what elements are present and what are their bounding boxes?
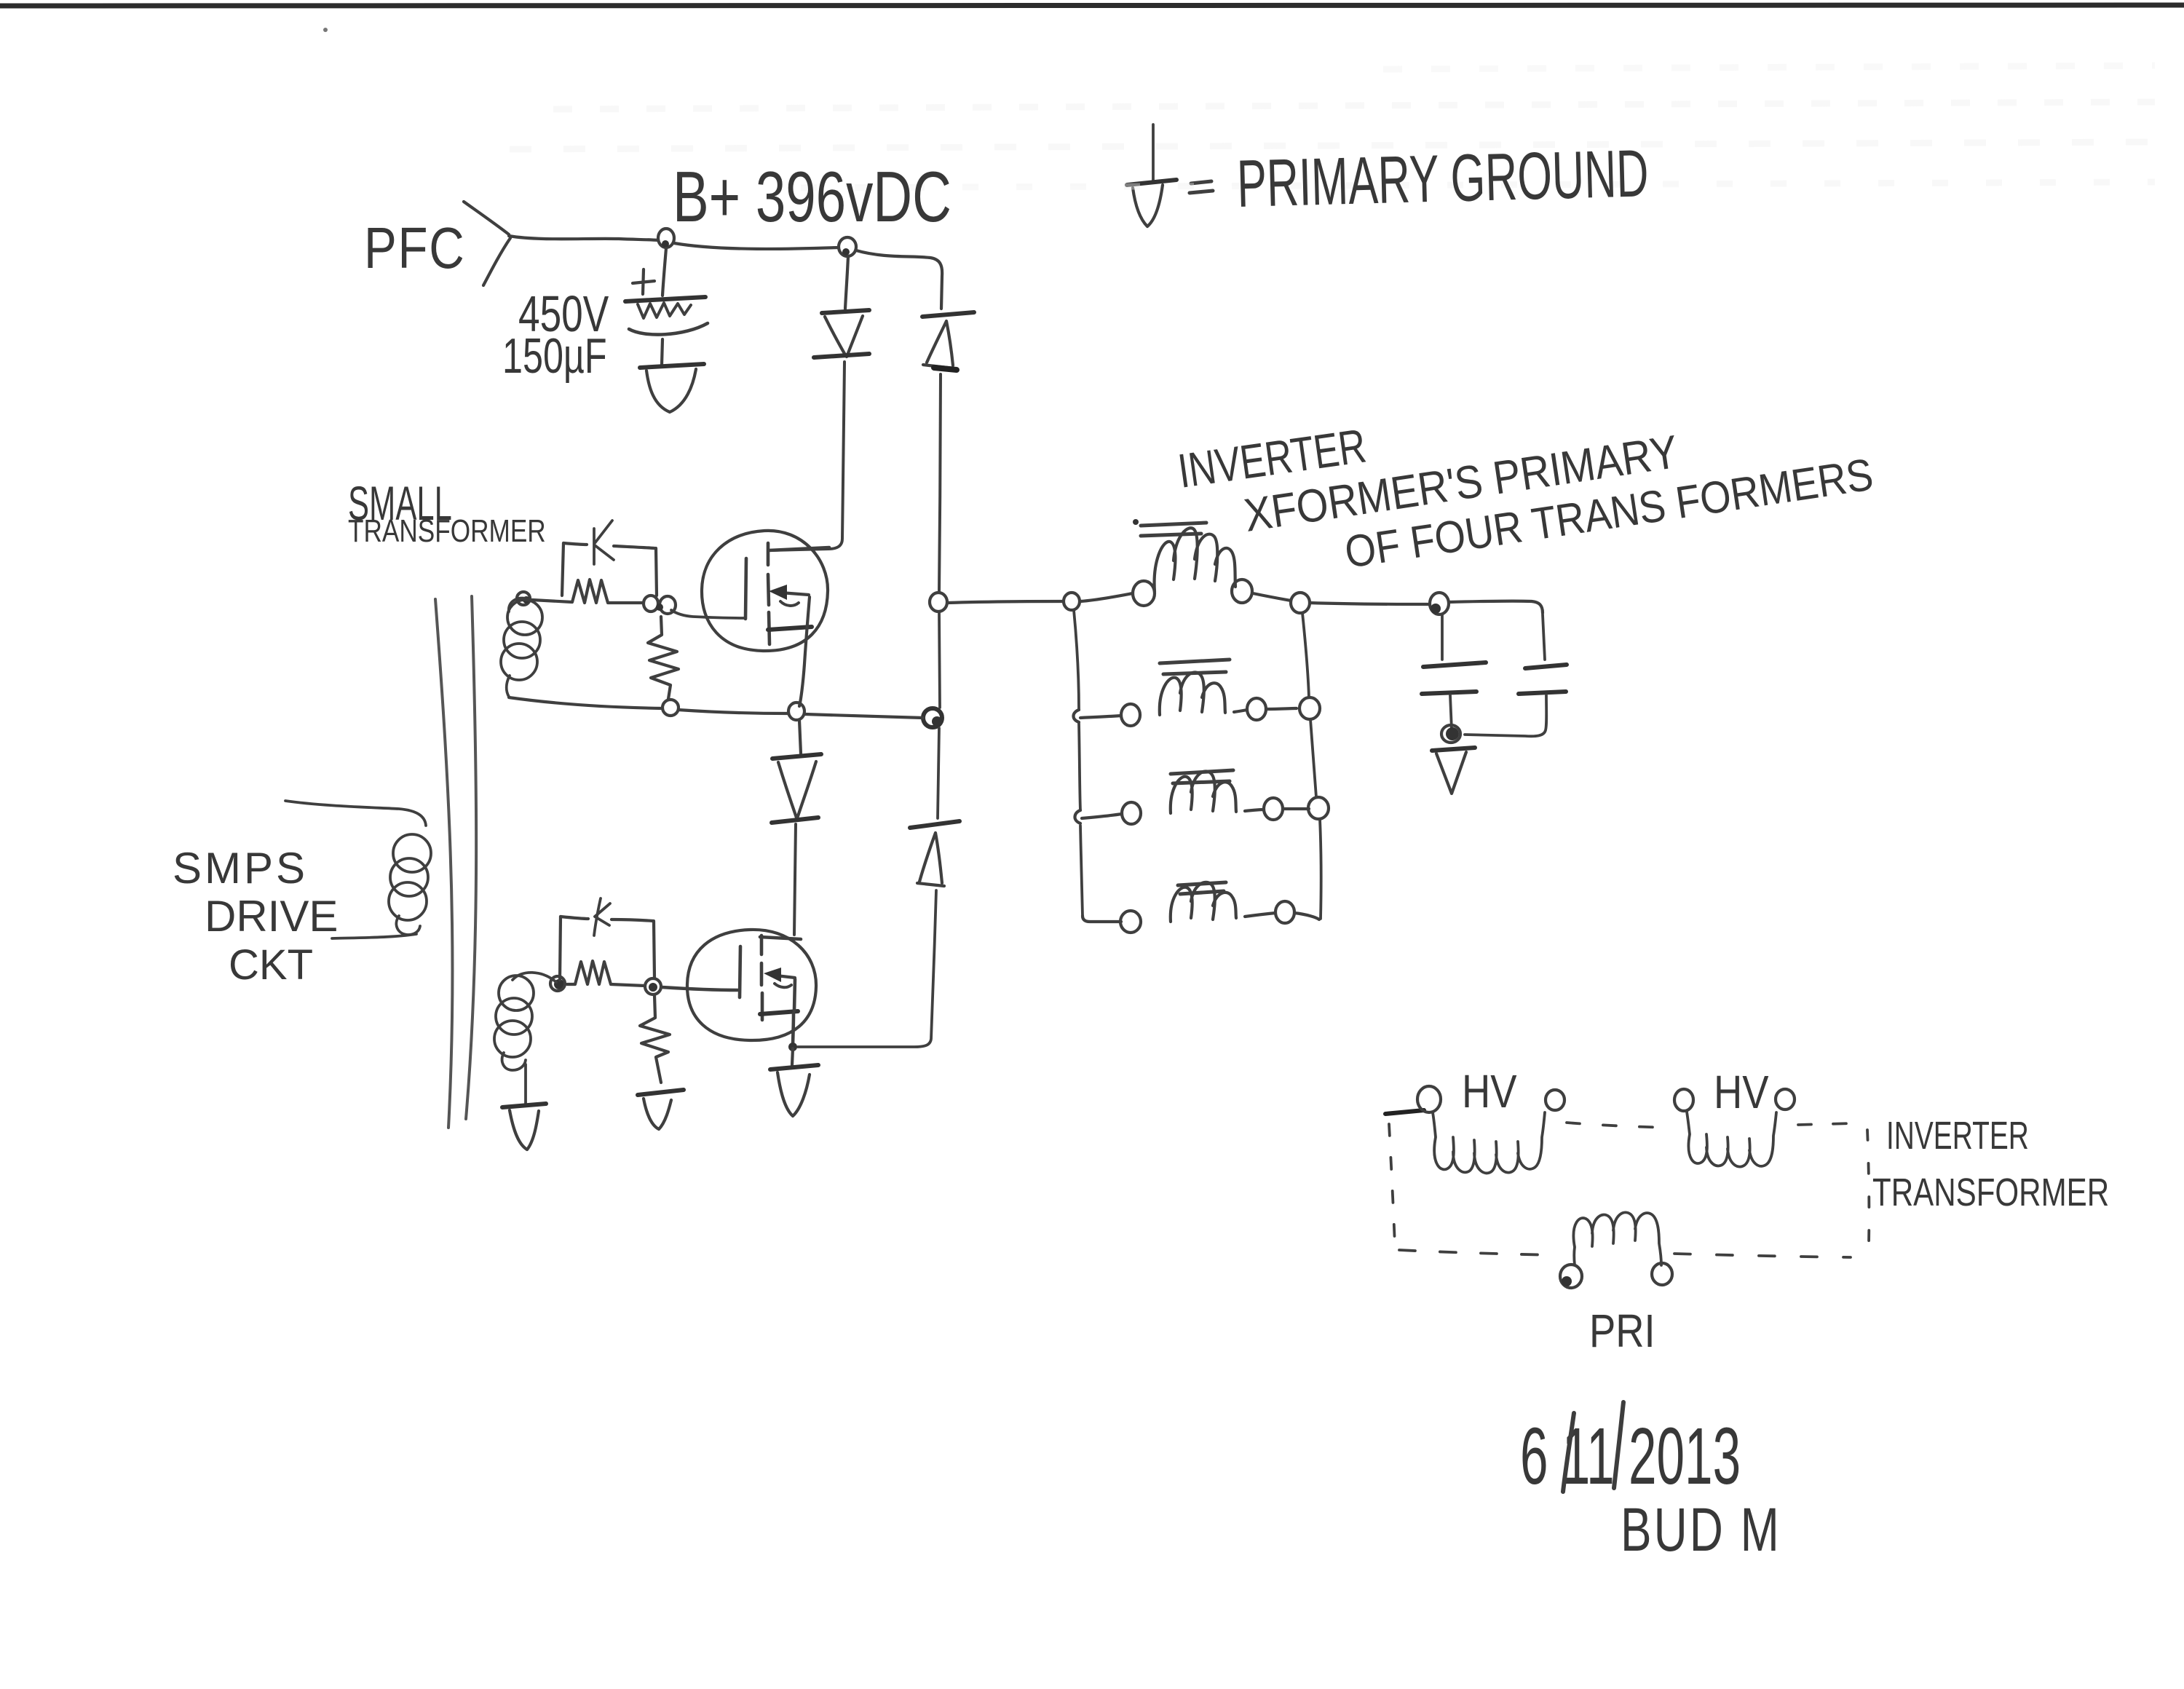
node junction bank top left bbox=[930, 593, 947, 612]
wire bus node1 to node2 bbox=[674, 243, 839, 249]
winding W3 drive coil bbox=[393, 834, 431, 872]
branch3 wire right bbox=[1245, 810, 1264, 811]
node junction winding W2 top bbox=[554, 979, 564, 989]
wire mid rail bbox=[509, 697, 923, 718]
diode D3 bottom bar bbox=[772, 818, 818, 823]
terminal circle L2 left bbox=[1121, 704, 1140, 726]
snubber diode box upper top wire bbox=[563, 543, 654, 548]
ground legend symbol bbox=[1127, 180, 1176, 185]
transistor Q1 source bar bbox=[768, 627, 812, 630]
node junction mid rail right bbox=[923, 708, 942, 727]
svg-text:PRIMARY GROUND: PRIMARY GROUND bbox=[1236, 135, 1650, 221]
branch4 wire to right bus corner bbox=[1294, 913, 1319, 919]
wire bank to caps bbox=[1310, 603, 1429, 604]
svg-text:PRI: PRI bbox=[1589, 1305, 1655, 1357]
node junction left bus branch2 bbox=[1073, 710, 1079, 722]
terminal circle L2 far right bbox=[1247, 698, 1266, 720]
wire D2 down to bank node bbox=[939, 374, 941, 593]
node junction gate network upper bbox=[644, 596, 658, 612]
capacitor C1 bottom plate bbox=[629, 323, 708, 335]
winding PRI bbox=[1573, 1212, 1661, 1265]
node junction R1 bottom on mid rail bbox=[662, 700, 678, 716]
node junction Q1 source on mid rail bbox=[788, 703, 804, 720]
node junction bank right bus top bbox=[1291, 593, 1310, 613]
transistor Q1 arrow bbox=[780, 593, 809, 595]
snubber diode box upper left side bbox=[562, 543, 563, 596]
wire Q1 source node to D3 bbox=[799, 720, 801, 753]
winding HV1 bbox=[1433, 1112, 1545, 1173]
transistor Q2 source lead bbox=[793, 979, 795, 1046]
capacitor C1 polarity squiggle bbox=[638, 303, 691, 318]
dashes right of HV2 bbox=[1798, 1123, 1853, 1125]
transistor Q1 drain bar bbox=[769, 547, 829, 550]
diode D4 top bar bbox=[910, 821, 960, 828]
dashed box left side bbox=[1389, 1124, 1395, 1245]
diode K1 snubber upper bbox=[594, 521, 614, 564]
svg-text:150µF: 150µF bbox=[502, 328, 607, 384]
snubber diode box lower top wire bbox=[561, 917, 653, 921]
ground below C1 bbox=[640, 364, 704, 368]
terminal circle PRI right bbox=[1652, 1263, 1672, 1285]
snubber diode box lower left side bbox=[560, 917, 561, 980]
wire C1 to ground bbox=[662, 339, 662, 365]
node junction caps top bbox=[1430, 593, 1449, 614]
svg-text:HV: HV bbox=[1462, 1065, 1517, 1118]
capacitor C2 bottom plate bbox=[1422, 692, 1476, 694]
transistor Q2 gate bar bbox=[740, 946, 740, 997]
capacitor C3 top plate bbox=[1525, 665, 1567, 668]
wire mid node to D4 bbox=[938, 728, 939, 818]
ground below W2 bbox=[502, 1104, 546, 1107]
terminal circle L4 left bbox=[1120, 911, 1141, 933]
wire D2 line to mid node bbox=[939, 612, 940, 708]
capacitor C3 bottom plate bbox=[1519, 692, 1566, 694]
transistor Q2 drain bar bbox=[760, 937, 801, 939]
svg-text:TRANSFORMER: TRANSFORMER bbox=[348, 513, 546, 549]
diode D4 up-pointing triangle bbox=[917, 833, 944, 886]
transistor Q1 source lead down bbox=[799, 597, 810, 706]
date slash strokes bbox=[1563, 1402, 1623, 1492]
core marks above L3 bbox=[1171, 770, 1233, 783]
transistor Q1 body circle bbox=[702, 531, 828, 651]
terminal circle HV1 left bbox=[1417, 1086, 1441, 1112]
capacitor C2 top lead bbox=[1441, 614, 1444, 660]
dashes between HV windings bbox=[1567, 1123, 1671, 1128]
diode D1 lead from node2 bbox=[845, 256, 848, 309]
wire bank top rail left bbox=[947, 601, 1063, 603]
wire PFC to node B+ bbox=[509, 236, 658, 240]
ground legend symbol vertical bbox=[1152, 124, 1155, 181]
transistor Q2 gate lead bbox=[662, 987, 737, 990]
svg-text:B+ 396vDC: B+ 396vDC bbox=[673, 157, 951, 237]
capacitor C3 top lead bbox=[1543, 614, 1545, 660]
terminal circle HV2 right bbox=[1776, 1089, 1795, 1109]
wire W2 to ground bbox=[524, 1064, 527, 1104]
winding HV2 bbox=[1687, 1112, 1776, 1167]
capacitor C1 lead from node1 bbox=[662, 248, 666, 296]
diode K2 snubber lower bbox=[594, 898, 610, 936]
diode D3 top bar bbox=[772, 754, 821, 759]
SCANNER-EDGE bbox=[323, 28, 328, 32]
wire caps top jog right bbox=[1449, 601, 1543, 613]
plus sign of C1 bbox=[633, 269, 654, 294]
node junction left bus branch3 bbox=[1075, 810, 1080, 823]
node junction right bus branch3 bbox=[1308, 797, 1329, 819]
ground below R2 bbox=[638, 1090, 684, 1095]
node junction winding W1 top bbox=[517, 592, 530, 605]
svg-text:CKT: CKT bbox=[229, 941, 313, 989]
terminal circle L4 far right bbox=[1275, 901, 1294, 923]
bank right bus vertical bbox=[1302, 613, 1321, 919]
node junction bank left bus top bbox=[1064, 593, 1080, 610]
node junction caps bottom bbox=[1446, 727, 1459, 740]
diode D1 cathode-side bar bbox=[822, 310, 869, 313]
terminal circle PRI left bbox=[1560, 1265, 1582, 1288]
dashed box bottom side right bbox=[1674, 1254, 1851, 1257]
ground below caps bbox=[1432, 748, 1475, 751]
diode D3 triangle bbox=[778, 762, 816, 818]
transistor Q2 channel bar bbox=[761, 936, 762, 1020]
transistor Q2 arrow bbox=[776, 976, 795, 978]
core marks above L1 bbox=[1141, 523, 1206, 536]
terminal circle L1 right bbox=[1232, 580, 1252, 603]
terminal circle L3 far right bbox=[1264, 798, 1283, 820]
PFC input branch bbox=[464, 202, 510, 285]
svg-text:HV: HV bbox=[1714, 1066, 1769, 1118]
terminal circle HV2 left bbox=[1674, 1089, 1693, 1111]
wire L1 to right bus bbox=[1253, 593, 1291, 601]
winding L1 primary coil bbox=[1155, 528, 1235, 592]
node junction B+ bus 2 bbox=[839, 237, 856, 256]
branch3 wire left bbox=[1082, 814, 1122, 818]
svg-text:BUD M: BUD M bbox=[1621, 1495, 1781, 1564]
wire Q2 source to ground bbox=[792, 1048, 793, 1065]
capacitor C2 bottom lead bbox=[1450, 695, 1452, 729]
bank left bus vertical bbox=[1074, 610, 1083, 916]
svg-text:SMPS: SMPS bbox=[173, 844, 308, 893]
inverter transformer dashed box top-left corner bbox=[1385, 1110, 1424, 1114]
diode D2 up-pointing triangle bbox=[923, 321, 954, 368]
winding L4 primary coil bbox=[1171, 882, 1236, 922]
terminal circle L1 left bbox=[1133, 581, 1155, 606]
transistor Q1 gate lead bbox=[671, 610, 744, 618]
node junction B+ bus 1 bbox=[658, 229, 674, 248]
transistor Q2 source bar bbox=[760, 1011, 798, 1014]
capacitor C1 top plate bbox=[625, 297, 705, 301]
resistor RG2 gate series zigzag bbox=[567, 961, 645, 986]
transistor Q1 channel bar bbox=[768, 543, 769, 644]
resistor R2 gate-source zigzag bbox=[640, 995, 670, 1083]
branch4 wire right bbox=[1245, 913, 1275, 917]
wire rail to L1 bbox=[1080, 593, 1133, 601]
transistor Q2 body circle bbox=[687, 930, 816, 1040]
svg-text:DRIVE: DRIVE bbox=[205, 892, 338, 941]
diode D1 anode bar bbox=[814, 354, 869, 357]
branch4 wire left bbox=[1083, 916, 1121, 922]
branch2 wire left bbox=[1080, 716, 1121, 718]
terminal circle HV1 right bbox=[1546, 1090, 1564, 1110]
resistor R1 gate-source zigzag bbox=[648, 617, 678, 699]
core marks above L2 bbox=[1160, 660, 1230, 674]
wire D1 down to Q1 drain bbox=[770, 362, 844, 550]
ground below Q2 source bbox=[770, 1065, 818, 1069]
node junction gate network lower bbox=[645, 978, 661, 994]
svg-text:INVERTER: INVERTER bbox=[1886, 1113, 2029, 1158]
svg-text:6 11 2013: 6 11 2013 bbox=[1520, 1412, 1741, 1501]
dashed box right side bbox=[1867, 1130, 1869, 1243]
transistor Q1 gate bar bbox=[745, 558, 746, 619]
wire D3 to Q2 drain bbox=[794, 824, 796, 935]
wire D4 down and left to Q2 source bbox=[798, 890, 936, 1047]
resistor RG1 gate series zigzag bbox=[532, 580, 644, 603]
node junction Q2 source bbox=[788, 1043, 797, 1051]
winding L2 primary coil bbox=[1160, 672, 1225, 715]
transformer core lines bbox=[435, 599, 453, 1128]
winding W3 drive coil top lead bbox=[285, 801, 426, 826]
diode D1 triangle bbox=[825, 316, 863, 357]
equals sign bbox=[1190, 181, 1213, 193]
dashed box bottom side left bbox=[1399, 1250, 1558, 1255]
capacitor C2 top plate bbox=[1423, 662, 1486, 667]
snubber diode box lower right side bbox=[654, 921, 654, 978]
winding L3 primary coil bbox=[1171, 771, 1236, 813]
winding W1 secondary upper coil bbox=[509, 598, 532, 612]
svg-text:TRANSFORMER: TRANSFORMER bbox=[1872, 1171, 2109, 1214]
snubber diode box upper right side bbox=[656, 548, 657, 596]
wire bus node2 to D2 corner bbox=[856, 250, 942, 309]
svg-text:PFC: PFC bbox=[364, 215, 465, 280]
node junction right bus branch2 bbox=[1299, 697, 1320, 719]
branch2 wire right bbox=[1234, 710, 1247, 712]
capacitor C3 bottom lead and wire to junction bbox=[1465, 695, 1546, 736]
winding W2 secondary lower coil bbox=[513, 973, 556, 982]
winding W3 drive coil bottom lead bbox=[332, 934, 416, 938]
core marks above L4 bbox=[1178, 882, 1226, 894]
terminal circle L3 left bbox=[1122, 802, 1141, 824]
diode D2 top bar bbox=[922, 312, 974, 317]
